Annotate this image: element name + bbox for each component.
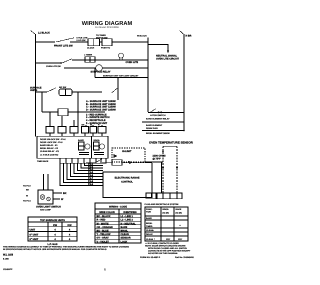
svg-text:FORM NO. 53-4587-2: FORM NO. 53-4587-2 xyxy=(140,256,161,259)
svg-text:INF SW: INF SW xyxy=(59,86,66,89)
bus L1 xyxy=(35,34,37,136)
svg-text:TIMED: TIMED xyxy=(146,225,153,228)
wire cascade v3 xyxy=(78,163,104,170)
relay K3 contact xyxy=(94,142,100,150)
relay K3 coil xyxy=(99,144,104,149)
svg-text:DOOR UNLOCK SW · P1-6: DOOR UNLOCK SW · P1-6 xyxy=(40,138,66,141)
component fuse erc xyxy=(112,160,122,165)
wire erc feed xyxy=(86,162,95,164)
switch infinite SW3 xyxy=(47,88,56,92)
terminal T1 xyxy=(46,127,54,134)
svg-text:For Model: FES310BW: For Model: FES310BW xyxy=(95,26,119,29)
svg-text:L1 BLACK: L1 BLACK xyxy=(38,32,50,35)
terminal T4 xyxy=(82,127,89,134)
lamp DS3 xyxy=(47,197,51,201)
svg-text:N BR: N BR xyxy=(186,35,192,38)
switch oven lite SW2 xyxy=(62,59,72,63)
table surface units outline xyxy=(28,217,77,241)
svg-text:D - SURFACE UNIT 2350W: D - SURFACE UNIT 2350W xyxy=(86,108,116,111)
svg-text:DOOR LOCK SW · P1-5: DOOR LOCK SW · P1-5 xyxy=(40,141,63,144)
svg-text:CLOCK: CLOCK xyxy=(87,47,95,50)
svg-text:W-BLACK: W-BLACK xyxy=(137,35,147,38)
arrow neutral arm xyxy=(167,51,169,54)
relay K2 coil xyxy=(85,144,90,149)
node N entry xyxy=(180,31,185,35)
wire drop x86 xyxy=(85,125,87,127)
wire hi-limit down xyxy=(161,162,163,193)
svg-text:L1 - LINE 1: L1 - LINE 1 xyxy=(121,215,134,218)
wire rung3 xyxy=(36,91,48,93)
wire rung2a xyxy=(36,62,61,64)
svg-text:5 LID SW: 5 LID SW xyxy=(77,39,86,42)
svg-text:BROIL: BROIL xyxy=(146,222,153,225)
svg-text:CLEAN: CLEAN xyxy=(121,233,130,236)
wire cascade v1 xyxy=(85,163,104,165)
svg-text:LOCK: LOCK xyxy=(121,240,128,243)
svg-text:Y - YELLOW: Y - YELLOW xyxy=(97,233,112,236)
svg-text:TOP SURFACE UNITS: TOP SURFACE UNITS xyxy=(40,219,65,222)
svg-text:BROIL: BROIL xyxy=(94,139,101,142)
svg-text:AND LAMP: AND LAMP xyxy=(40,208,51,211)
svg-text:120°: 120° xyxy=(166,238,170,241)
svg-text:BK: BK xyxy=(82,124,85,127)
contact latch b xyxy=(161,112,162,113)
svg-text:HI-LIMIT: HI-LIMIT xyxy=(122,150,132,153)
svg-text:BK - BLACK: BK - BLACK xyxy=(97,215,111,218)
wire drop x78 xyxy=(77,92,79,126)
svg-text:@ 75°F: @ 75°F xyxy=(153,157,162,160)
svg-text:SENSOR: SENSOR xyxy=(121,237,131,240)
svg-text:▲: ▲ xyxy=(152,229,154,232)
wire bake to N xyxy=(142,121,184,123)
wire stub t5 xyxy=(92,133,94,136)
svg-text:OVEN LIGHT SWITCH: OVEN LIGHT SWITCH xyxy=(36,205,61,208)
wire rung2b xyxy=(64,67,96,69)
svg-text:BROIL: BROIL xyxy=(163,208,170,211)
motor surface relay M1 xyxy=(96,65,103,72)
wire cascade v6 xyxy=(67,163,103,179)
svg-text:(A) (B): (A) (B) xyxy=(163,212,170,215)
wire drop x93 xyxy=(92,125,94,127)
svg-text:ELECTRONIC RANGE: ELECTRONIC RANGE xyxy=(115,176,140,179)
svg-text:8.1/98: 8.1/98 xyxy=(3,258,10,261)
svg-text:PLUG AND RECEPTACLE SYSTEM: PLUG AND RECEPTACLE SYSTEM xyxy=(145,203,179,206)
svg-text:DELAY: DELAY xyxy=(146,233,153,236)
wire caption riser xyxy=(94,68,96,78)
svg-text:BAKE: BAKE xyxy=(121,226,128,229)
wire hi-limit out xyxy=(145,161,163,163)
wire rung1 mid xyxy=(70,41,88,43)
component clock K1 xyxy=(88,39,100,46)
svg-text:FRONT LITE SW: FRONT LITE SW xyxy=(54,44,73,47)
wire latch to N xyxy=(148,112,184,114)
svg-text:LATCH SWITCH: LATCH SWITCH xyxy=(150,114,166,117)
wire rung3 right xyxy=(72,91,102,93)
svg-text:UNIT: UNIT xyxy=(30,229,36,232)
lamp DS2 xyxy=(40,195,45,200)
component timer box xyxy=(85,57,95,63)
switch latch SW6 xyxy=(150,109,156,113)
box oven lamp assembly xyxy=(38,190,53,204)
wire neutral signal arm xyxy=(148,45,168,52)
svg-text:BROIL RELAY · K2: BROIL RELAY · K2 xyxy=(40,147,59,150)
svg-text:OR - ORANGE: OR - ORANGE xyxy=(97,226,114,229)
svg-text:W: W xyxy=(90,124,92,127)
bus W-BLACK mid xyxy=(147,38,149,113)
connector erc bottom right xyxy=(146,193,157,198)
component infinite switch xyxy=(59,89,72,96)
svg-text:BROIL ELEMENT 3600W: BROIL ELEMENT 3600W xyxy=(146,132,170,135)
arrow sensor left xyxy=(162,167,164,170)
svg-text:BROIL: BROIL xyxy=(121,230,129,233)
wire stub t4 xyxy=(84,133,86,136)
wire sensor bar xyxy=(163,145,177,147)
wire rung2a right xyxy=(72,59,148,61)
switch door lite SW1 xyxy=(56,38,74,42)
svg-text:BAKE: BAKE xyxy=(78,139,84,142)
box electronic oven control U1 xyxy=(37,136,108,158)
terminal T6 xyxy=(98,127,106,134)
svg-text:OVEN LITE: OVEN LITE xyxy=(126,61,139,64)
svg-text:120°: 120° xyxy=(178,238,182,241)
node L1 entry xyxy=(31,31,36,35)
box hi-limit dashed xyxy=(112,148,145,162)
wire drop x50 xyxy=(49,112,51,126)
svg-text:6: 6 xyxy=(104,267,106,271)
wire lamp out2 xyxy=(53,198,60,200)
wire lamp drop1 xyxy=(43,174,45,190)
wire drop x74 xyxy=(73,120,75,126)
contact latch a xyxy=(158,112,159,113)
svg-text:W - WHITE: W - WHITE xyxy=(97,222,109,225)
node N end dot xyxy=(183,130,185,132)
svg-text:TION: TION xyxy=(146,211,151,214)
wire drop x62 xyxy=(61,116,63,126)
hatch K2 xyxy=(79,152,89,154)
bus N xyxy=(183,34,185,131)
wire rung1 xyxy=(36,41,56,43)
svg-text:BAKE RELAY · K1: BAKE RELAY · K1 xyxy=(40,144,58,147)
wire lamp out1 xyxy=(53,192,62,194)
svg-text:8″ UNIT: 8″ UNIT xyxy=(30,238,39,241)
triangle hi-limit xyxy=(114,154,118,158)
svg-text:W.L 10/3: W.L 10/3 xyxy=(3,254,14,257)
wire drop x102 xyxy=(101,125,103,127)
svg-text:CLEAN RELAY · K3: CLEAN RELAY · K3 xyxy=(40,150,60,153)
relay K2 contact xyxy=(79,142,85,150)
svg-text:BAKE: BAKE xyxy=(176,208,182,211)
wire stub t6 xyxy=(101,133,103,136)
component receptacle xyxy=(58,109,68,116)
svg-text:IN SPECIFICATIONS WITHOUT NOTI: IN SPECIFICATIONS WITHOUT NOTICE. SEE AP… xyxy=(3,248,107,251)
switch erc SW5 xyxy=(95,159,102,163)
svg-text:THIS WIRING DIAGRAM IS CORRECT: THIS WIRING DIAGRAM IS CORRECT AT TIME O… xyxy=(3,245,129,248)
svg-text:L TIMER: L TIMER xyxy=(84,54,93,57)
wire drop x42 xyxy=(41,92,43,112)
svg-text:TIME BAKE: TIME BAKE xyxy=(37,160,49,163)
svg-text:WIRE COLOR: WIRE COLOR xyxy=(99,211,115,214)
svg-text:BK: BK xyxy=(63,192,67,195)
wire sensor left leg xyxy=(162,146,164,196)
svg-text:WIRING DIAGRAM: WIRING DIAGRAM xyxy=(82,21,133,27)
connector sensor plug xyxy=(156,193,182,199)
svg-text:BAKE: BAKE xyxy=(146,217,152,220)
wire caption line xyxy=(95,77,148,79)
terminal strip bottom of control xyxy=(60,158,106,163)
table plug outline xyxy=(145,207,188,241)
svg-text:2500W 240V: 2500W 240V xyxy=(146,127,158,130)
wire sensor right leg xyxy=(176,146,178,196)
terminal T5 xyxy=(90,127,97,134)
wire rung1 right xyxy=(100,41,103,43)
svg-text:OVEN TEMPERATURE SENSOR: OVEN TEMPERATURE SENSOR xyxy=(149,140,194,144)
svg-text:(A) (B): (A) (B) xyxy=(176,212,183,215)
svg-text:SURFACE UNIT ‘ON’ LIGHT CIRCUI: SURFACE UNIT ‘ON’ LIGHT CIRCUIT xyxy=(103,74,139,77)
svg-text:MOTOR SW: MOTOR SW xyxy=(96,36,108,39)
svg-text:▲: ▲ xyxy=(179,224,181,227)
wire cascade v8 xyxy=(60,163,103,185)
wire stub t1 xyxy=(49,133,51,136)
svg-text:TO P1-2: TO P1-2 xyxy=(23,185,32,188)
svg-text:W: W xyxy=(26,195,28,198)
lamp oven lite DS1 xyxy=(119,53,124,58)
svg-text:6″ UNIT: 6″ UNIT xyxy=(30,233,39,236)
svg-text:CLEAN: CLEAN xyxy=(146,238,154,241)
svg-text:V - VIOLET: V - VIOLET xyxy=(97,240,110,243)
svg-text:GY - GRAY: GY - GRAY xyxy=(97,237,110,240)
terminal T2 xyxy=(58,127,66,134)
svg-text:WIRING - CODE: WIRING - CODE xyxy=(109,205,127,208)
switch on drop x118 xyxy=(112,88,118,93)
svg-text:BU - BLUE: BU - BLUE xyxy=(97,230,109,233)
svg-text:P2-9: P2-9 xyxy=(88,183,94,186)
svg-text:5 TUB LITE: 5 TUB LITE xyxy=(77,37,89,40)
arrow sensor right xyxy=(176,167,178,170)
wire erc top right drop xyxy=(151,163,153,172)
wire cascade v7 xyxy=(64,163,104,182)
svg-text:R - RED: R - RED xyxy=(97,219,106,222)
component timer motor K1b xyxy=(102,39,112,46)
svg-text:Part No. 316048418: Part No. 316048418 xyxy=(175,256,195,259)
svg-text:OVEN LITE CIRCUIT: OVEN LITE CIRCUIT xyxy=(156,57,180,60)
wire rung2b right xyxy=(102,67,148,69)
wire erc feed right xyxy=(102,162,112,164)
wire rung4 right xyxy=(68,111,105,113)
svg-text:OVEN LITE SW: OVEN LITE SW xyxy=(46,65,61,68)
svg-text:TO P1-4: TO P1-4 xyxy=(23,200,32,203)
divider control box xyxy=(91,136,93,158)
svg-text:FUNC-: FUNC- xyxy=(146,208,153,211)
wire cascade v5 xyxy=(71,163,104,176)
table wiring code outline xyxy=(95,203,141,243)
terminal T3 xyxy=(70,127,78,134)
svg-text:▲ IN CLEAN, CONTACTS CLOSED: ▲ IN CLEAN, CONTACTS CLOSED xyxy=(145,242,179,245)
contact oven lite sw xyxy=(60,62,61,63)
svg-text:IDENTIFIES: IDENTIFIES xyxy=(123,211,137,214)
svg-text:SURFACE RELAY: SURFACE RELAY xyxy=(91,71,111,74)
wire lamp drop2 xyxy=(47,174,49,190)
wire rung4 xyxy=(42,111,58,113)
svg-text:L2 - LINE 2: L2 - LINE 2 xyxy=(121,219,134,222)
svg-text:AS NOTED ON THE DIAGRAM.: AS NOTED ON THE DIAGRAM. xyxy=(148,252,178,255)
svg-text:CONTROL: CONTROL xyxy=(121,181,133,184)
svg-text:N - NEUTRAL: N - NEUTRAL xyxy=(121,222,137,225)
svg-text:BAKE ELEMENT: BAKE ELEMENT xyxy=(146,124,163,127)
box electronic range control U2 xyxy=(103,172,152,198)
wire stub t2 xyxy=(61,133,63,136)
wire drop x118 xyxy=(117,78,119,100)
svg-text:CS-8507Z: CS-8507Z xyxy=(3,268,13,271)
svg-text:BAKE ELEMENT RELAY: BAKE ELEMENT RELAY xyxy=(146,118,170,121)
arrow hi-limit out xyxy=(128,161,132,163)
svg-text:L1 N DLB COM NO: L1 N DLB COM NO xyxy=(40,154,59,157)
wire broil to N xyxy=(142,130,184,132)
wire cascade v4 xyxy=(74,163,103,173)
arrow erc feed xyxy=(129,162,133,164)
svg-text:BK: BK xyxy=(26,189,29,192)
node sensor dot xyxy=(162,151,164,153)
hatch K3 xyxy=(94,152,104,154)
svg-text:PUSH TO: PUSH TO xyxy=(101,47,110,50)
wire stub t3 xyxy=(73,133,75,136)
wire cascade v2 xyxy=(81,163,103,168)
